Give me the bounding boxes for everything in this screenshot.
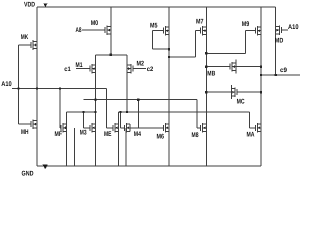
junction M1 drain [94, 99, 96, 101]
wire MF source drop [66, 132, 68, 167]
svg-text:GND: GND [22, 170, 34, 177]
wire M8 gate riser [196, 100, 198, 128]
wire M9-MA column [260, 7, 262, 166]
svg-text:M3: M3 [80, 129, 87, 136]
transistor M9 [254, 28, 256, 34]
junction MB right [260, 66, 262, 68]
wire M4 bulk riser [137, 100, 139, 128]
junction M3 gate [82, 111, 84, 113]
svg-text:c2: c2 [147, 66, 154, 73]
svg-text:M6: M6 [157, 134, 165, 141]
wire diff pair source [96, 54, 128, 56]
svg-text:c1: c1 [64, 66, 71, 73]
junction MC tap [205, 91, 207, 93]
wire MF drain stub [66, 112, 68, 124]
wire M1-M3 column [95, 55, 97, 166]
wire MF bulk drop [74, 128, 76, 166]
wire ME source drop [118, 132, 120, 167]
wire MA gate riser [248, 112, 250, 128]
transistor M1 [89, 66, 91, 72]
svg-text:M4: M4 [134, 131, 141, 138]
wire M1 drain net [84, 99, 198, 101]
wire M4 gate riser [119, 112, 121, 128]
junction M7 drain tap [205, 52, 207, 54]
power VDD symbol [43, 3, 47, 7]
junction MB gate tap [205, 66, 207, 68]
transistor ME [112, 125, 114, 131]
transistor MD [280, 27, 282, 33]
transistor MF [60, 125, 62, 131]
transistor MB [229, 64, 231, 70]
wire VDD top rail [37, 6, 276, 8]
transistor M7 [200, 28, 202, 34]
junction M4 bulk / M1 net [137, 99, 139, 101]
junction MF gate / A10 [59, 87, 61, 89]
svg-text:M7: M7 [196, 19, 204, 26]
junction M4 gate [119, 111, 121, 113]
junction M5 drain tap [168, 56, 170, 58]
wire ME drain stub [118, 112, 120, 124]
wire MD drain column [275, 7, 277, 75]
junction M3 drain [94, 111, 96, 113]
wire M2 drain column [126, 55, 128, 112]
junction M2 drain [126, 111, 128, 113]
transistor M6 [162, 125, 164, 131]
svg-text:MH: MH [21, 129, 29, 136]
svg-text:MB: MB [207, 71, 215, 78]
transistor MA [254, 125, 256, 131]
junction MK gate / A10 [17, 87, 19, 89]
svg-text:M9: M9 [242, 21, 250, 28]
transistor M0 [104, 27, 106, 33]
wire M3 gate riser [83, 112, 85, 128]
junction output [260, 74, 262, 76]
svg-text:MD: MD [275, 38, 284, 45]
wire ME bulk drop [125, 128, 127, 166]
wire M0 drain column [110, 7, 112, 55]
transistor M3 [89, 125, 91, 131]
wire MF drain link [67, 111, 96, 113]
wire M5-M6 column [168, 7, 170, 166]
wire ME gate riser [106, 89, 108, 128]
junction MK drain / A10 [36, 87, 38, 89]
junction MC gate right [260, 91, 262, 93]
wire M7-M8 column [205, 7, 207, 166]
transistor MC [236, 89, 238, 95]
svg-text:M5: M5 [150, 22, 158, 29]
wire MK-MH gate column [18, 45, 20, 124]
transistor MH [30, 121, 32, 127]
junction M0 drain [110, 54, 112, 56]
wire M7 drain to M9 gate [206, 52, 245, 54]
transistor M5 [162, 28, 164, 34]
transistor MK [30, 42, 32, 48]
wire output c9 [261, 74, 300, 76]
wire M9 gate riser [245, 31, 247, 54]
svg-text:M0: M0 [91, 20, 99, 27]
wire M6 gate link [131, 127, 164, 129]
wire M7 gate riser [194, 31, 196, 57]
wire A10 bias [12, 88, 107, 90]
transistor M8 [200, 125, 202, 131]
svg-text:M8: M8 [192, 132, 199, 139]
ground symbol [43, 165, 48, 170]
svg-text:A10: A10 [1, 81, 12, 88]
svg-text:MA: MA [247, 132, 255, 139]
svg-text:MF: MF [55, 131, 63, 138]
svg-text:M2: M2 [137, 61, 145, 68]
junction MD drain [274, 74, 276, 76]
transistor M2 [132, 66, 134, 72]
svg-text:MK: MK [21, 34, 29, 41]
wire MK-MH rail column [36, 7, 38, 166]
junction M5 diode [168, 48, 170, 50]
wire M5 to M7 gate [169, 56, 195, 58]
svg-text:M1: M1 [76, 62, 83, 69]
wire second stage net [119, 111, 250, 113]
svg-text:ME: ME [104, 131, 112, 138]
svg-text:A8: A8 [76, 27, 82, 34]
svg-text:c9: c9 [280, 67, 287, 74]
wire MF gate riser [59, 89, 61, 128]
wire GND bottom rail [37, 165, 261, 167]
svg-text:A10: A10 [288, 24, 299, 31]
transistor M4 [123, 125, 125, 131]
svg-text:MC: MC [237, 99, 245, 106]
svg-text:VDD: VDD [24, 2, 35, 9]
